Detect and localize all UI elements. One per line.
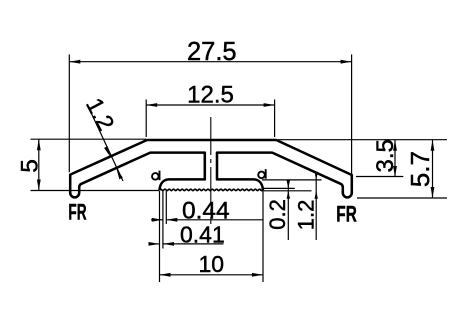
wire: left extension line of 10 bbox=[159, 191, 161, 282]
wire: right extension line of 10 bbox=[262, 192, 264, 283]
wire: dimension line 1.2 (foot thickness) bbox=[315, 172, 318, 240]
wire: left extension line of 27.5 bbox=[68, 54, 70, 172]
wire: dimension line 5.7 bbox=[431, 140, 435, 198]
svg-text:3.5: 3.5 bbox=[372, 139, 399, 172]
svg-text:1.2: 1.2 bbox=[293, 200, 318, 231]
wire: serration pitch extension line 2 bbox=[162, 191, 164, 249]
wire: dimension line 0.2 bbox=[287, 180, 290, 240]
wire: bottom extension line of 5.7 bbox=[357, 197, 447, 199]
svg-text:0.44: 0.44 bbox=[182, 197, 230, 224]
wire: dimension line 10 bbox=[160, 273, 264, 277]
svg-text:10: 10 bbox=[199, 251, 225, 277]
wire: extension line A (foot top surface, right) bbox=[262, 179, 322, 181]
wire: extension line B (serration valleys, right) bbox=[262, 187, 295, 189]
wire: bottom extension line of 5 bbox=[31, 190, 160, 192]
svg-text:5: 5 bbox=[17, 159, 44, 173]
svg-text:12.5: 12.5 bbox=[187, 81, 234, 108]
wire: dimension line 0.44 bbox=[151, 218, 263, 222]
svg-text:0.2: 0.2 bbox=[265, 199, 290, 230]
wire: right extension line of 27.5 bbox=[351, 54, 353, 174]
wire: dimension line 5 (left height) bbox=[37, 139, 41, 190]
svg-text:0.41: 0.41 bbox=[180, 222, 225, 248]
wire: top extension line shared by 3.5 and 5.7 bbox=[278, 139, 447, 141]
wire: right extension line of 12.5 bbox=[274, 100, 276, 138]
profile outline (aluminium extrusion cross-section) bbox=[70, 140, 352, 197]
svg-text:27.5: 27.5 bbox=[187, 38, 237, 66]
wire: top extension line of 5 bbox=[31, 138, 147, 140]
svg-text:FR: FR bbox=[68, 199, 86, 224]
node a marker left (knurl callout) bbox=[152, 171, 160, 181]
wire: dimension line 12.5 bbox=[146, 103, 274, 107]
serrated bottom of foot bbox=[160, 189, 263, 190]
wire: dimension line 27.5 bbox=[69, 60, 351, 64]
svg-text:FR: FR bbox=[336, 203, 357, 227]
centerline (vertical axis, dashed) bbox=[210, 117, 212, 224]
node a marker right (knurl callout) bbox=[258, 169, 266, 179]
wire: diagonal dimension line 1.2 (wall thickness) bbox=[87, 104, 123, 181]
wire: left extension line of 12.5 bbox=[145, 100, 147, 138]
wire: dimension line 0.41 bbox=[149, 242, 224, 246]
wire: serration pitch extension line 3 bbox=[165, 191, 167, 224]
svg-text:5.7: 5.7 bbox=[405, 151, 435, 187]
wire: bottom extension line of 3.5 bbox=[356, 176, 403, 178]
wire: extension line C (serration tips, right) bbox=[262, 190, 312, 192]
wire: dimension line 3.5 bbox=[393, 140, 397, 177]
svg-text:1.2: 1.2 bbox=[81, 94, 119, 135]
